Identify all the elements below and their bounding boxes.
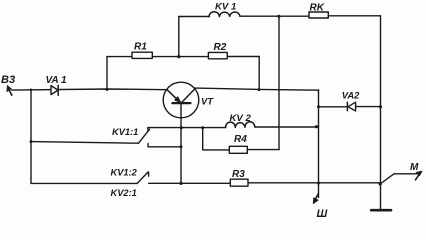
svg-text:R2: R2 — [214, 42, 227, 53]
junction node bottom line at Sh vertical — [317, 182, 320, 185]
resistor R4 — [229, 146, 247, 153]
terminal arrow Sh — [313, 194, 318, 204]
terminal arrow V3 — [7, 85, 12, 95]
wire: bottom line left of contact KV1:2 — [31, 182, 137, 184]
junction node VD2 line left — [317, 105, 320, 108]
wire: R1 to R2 horizontal — [107, 56, 259, 58]
junction node VD2 line right — [379, 105, 382, 108]
svg-text:Ш: Ш — [317, 208, 328, 220]
wire: vertical at x=31 down left side — [30, 90, 32, 184]
svg-text:М: М — [410, 162, 419, 173]
junction node at x31 main line — [30, 89, 33, 92]
svg-text:KV1:2: KV1:2 — [111, 168, 138, 178]
wire: top rail left segment — [179, 16, 209, 18]
wire: VD2 horizontal line — [319, 106, 381, 108]
terminal arrow M — [415, 171, 422, 180]
wire: KV1:1 upper terminal line to KV2 — [148, 126, 317, 129]
ground symbol — [371, 209, 391, 212]
wire: R1 left vertical drop to main line — [106, 57, 108, 90]
svg-text:R4: R4 — [234, 134, 247, 145]
resistor R1 — [132, 52, 152, 58]
resistor RK — [309, 12, 328, 18]
wire: top rail middle segment — [240, 15, 309, 17]
wire: main line corner vertical down to terminal Sh — [318, 90, 320, 198]
svg-text:VT: VT — [201, 95, 214, 106]
resistor R2 — [208, 52, 227, 58]
wire: R2 right vertical drop to main line — [258, 57, 260, 90]
transistor VT — [163, 82, 199, 118]
relay coil KV2 — [225, 122, 254, 128]
resistor R3 — [230, 179, 248, 186]
svg-text:VA 1: VA 1 — [46, 75, 68, 86]
contact KV1:2 blade — [137, 172, 148, 184]
wire: KV1:1 input line — [31, 142, 139, 144]
wire: KV1:1 lower terminal line to base vertical — [148, 146, 181, 148]
wire: R4 right vertical up to top rail junction — [278, 16, 280, 149]
junction node R1 drop on main line — [106, 88, 109, 91]
svg-text:KV1:1: KV1:1 — [112, 127, 138, 137]
wire: top rail right segment — [328, 15, 380, 17]
wire: R4 left drop from KV2 line — [202, 128, 204, 150]
svg-text:В3: В3 — [1, 74, 15, 86]
wire: bottom line right of contact through R3 — [149, 182, 381, 185]
wire: R4 horizontal line — [203, 149, 279, 151]
junction node at x31 KV1:1 line — [30, 140, 33, 143]
contact KV1:1 upper fixed terminal tick — [147, 127, 149, 131]
svg-text:KV 2: KV 2 — [230, 113, 252, 124]
diode VD2 — [347, 102, 355, 111]
junction node base vertical at bottom line — [179, 182, 182, 185]
junction node KV1:1 lower terminal at base vertical — [180, 145, 183, 148]
svg-text:R1: R1 — [134, 42, 147, 53]
wire: main horizontal line left of VT — [12, 89, 167, 90]
relay coil KV1 — [209, 12, 240, 17]
wire: vertical from top rail down to R1/R2 node — [178, 17, 180, 57]
svg-text:R3: R3 — [232, 169, 245, 180]
svg-text:KV 1: KV 1 — [215, 2, 236, 13]
wire: main horizontal line right of VT — [195, 88, 318, 90]
diode VD1 — [51, 85, 58, 95]
junction node R1-R2 top — [177, 55, 180, 58]
svg-text:RK: RK — [310, 3, 325, 14]
svg-text:KV2:1: KV2:1 — [111, 188, 137, 198]
wire: transistor base vertical down to bottom line — [180, 103, 182, 183]
junction node top rail KV1-RK — [277, 15, 280, 18]
junction node R4 drop on KV2 line — [201, 126, 204, 129]
junction node bottom right at M — [379, 182, 382, 185]
contact M blade from bottom-right junction — [380, 174, 418, 184]
junction node R2 drop on main line — [257, 88, 260, 91]
contact KV1:2 fixed terminal tick — [148, 172, 150, 176]
wire: right vertical from top rail to ground — [380, 16, 382, 210]
contact KV1:1 blade — [139, 129, 150, 143]
svg-text:VA2: VA2 — [342, 90, 360, 101]
junction node KV2 line right end — [315, 125, 318, 128]
contact KV1:1 lower fixed terminal tick — [147, 144, 149, 147]
junction node base vertical on KV2 line — [180, 126, 183, 129]
